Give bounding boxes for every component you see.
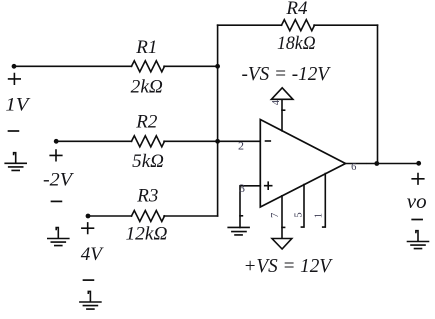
plus sign V1 [9,74,21,85]
pin 4 end tick [282,109,285,111]
svg-text:2: 2 [238,138,244,152]
wire op-amp output pin 6 [346,163,367,165]
svg-text:R2: R2 [135,111,158,132]
resistor R2 [132,136,165,147]
svg-text:vo: vo [407,189,427,213]
svg-text:R4: R4 [285,0,308,19]
junction R2/summing line [215,139,220,144]
wire output to vo terminal [368,163,419,165]
junction output/feedback [374,161,379,166]
wire R3 to summing line [164,215,218,217]
wire V2 to R2 [56,140,131,142]
ground G1 (source V1) [5,153,26,171]
node V2 terminal [54,139,59,144]
minus sign V3 [84,279,94,281]
plus sign V2 [50,150,62,161]
wire op-amp pin 3 to ground [240,186,260,228]
wire pin 5 stub [301,185,304,228]
op-amp inverting input marker [266,140,271,142]
plus sign V3 [82,223,94,234]
plus sign vo [412,174,424,185]
node V1 terminal [12,64,17,69]
resistor R4 [282,20,315,31]
svg-text:2kΩ: 2kΩ [131,76,163,97]
svg-text:4V: 4V [81,244,105,265]
svg-text:R1: R1 [135,37,157,58]
+VS power arrow (top) [271,88,293,100]
pin 3 end tick [240,215,242,217]
wire top feedback left segment [218,24,282,26]
wire R2 to op-amp pin 2 [164,140,260,142]
svg-text:5kΩ: 5kΩ [132,151,164,172]
svg-text:6: 6 [351,162,356,173]
minus sign V2 [52,200,62,202]
svg-text:3: 3 [239,181,245,195]
resistor R3 [132,211,165,222]
wire feedback right vertical [377,25,379,163]
wire pin 7 power stub [281,196,283,239]
svg-text:7: 7 [270,213,281,218]
op-amp non-inverting input marker [265,182,272,189]
svg-text:1: 1 [314,213,325,218]
wire pin 4 power stub [281,99,283,131]
svg-text:5: 5 [293,212,304,217]
svg-text:-VS = -12V: -VS = -12V [242,63,332,85]
wire R1 to summing node [164,65,218,67]
wire V1 to R1 [14,65,132,67]
wire top feedback right segment [314,24,378,26]
ground G5 (output vo) [408,231,429,249]
svg-text:1V: 1V [5,95,31,116]
svg-text:4: 4 [271,99,282,105]
svg-text:12kΩ: 12kΩ [126,224,168,245]
ground G3 (source V3) [80,291,101,309]
wire V3 to R3 [88,215,132,217]
ground G2 (source V2) [48,228,69,246]
minus sign vo [412,219,422,221]
svg-text:+VS = 12V: +VS = 12V [244,255,334,277]
svg-text:R3: R3 [136,185,158,206]
-VS power arrow (bottom) [272,239,292,250]
svg-text:18kΩ: 18kΩ [277,33,316,54]
wire pin 1 stub [323,174,326,228]
resistor R1 [132,61,165,72]
node V3 terminal [86,214,91,219]
minus sign V1 [9,130,19,132]
pin 7 end tick [282,226,285,228]
junction R1/summing line [215,64,220,69]
node vo terminal [416,161,421,166]
op-amp U1 triangle [260,120,345,208]
svg-text:-2V: -2V [43,169,75,190]
ground G4 (op-amp pin 3) [228,227,249,235]
wire summing vertical line [217,25,219,216]
